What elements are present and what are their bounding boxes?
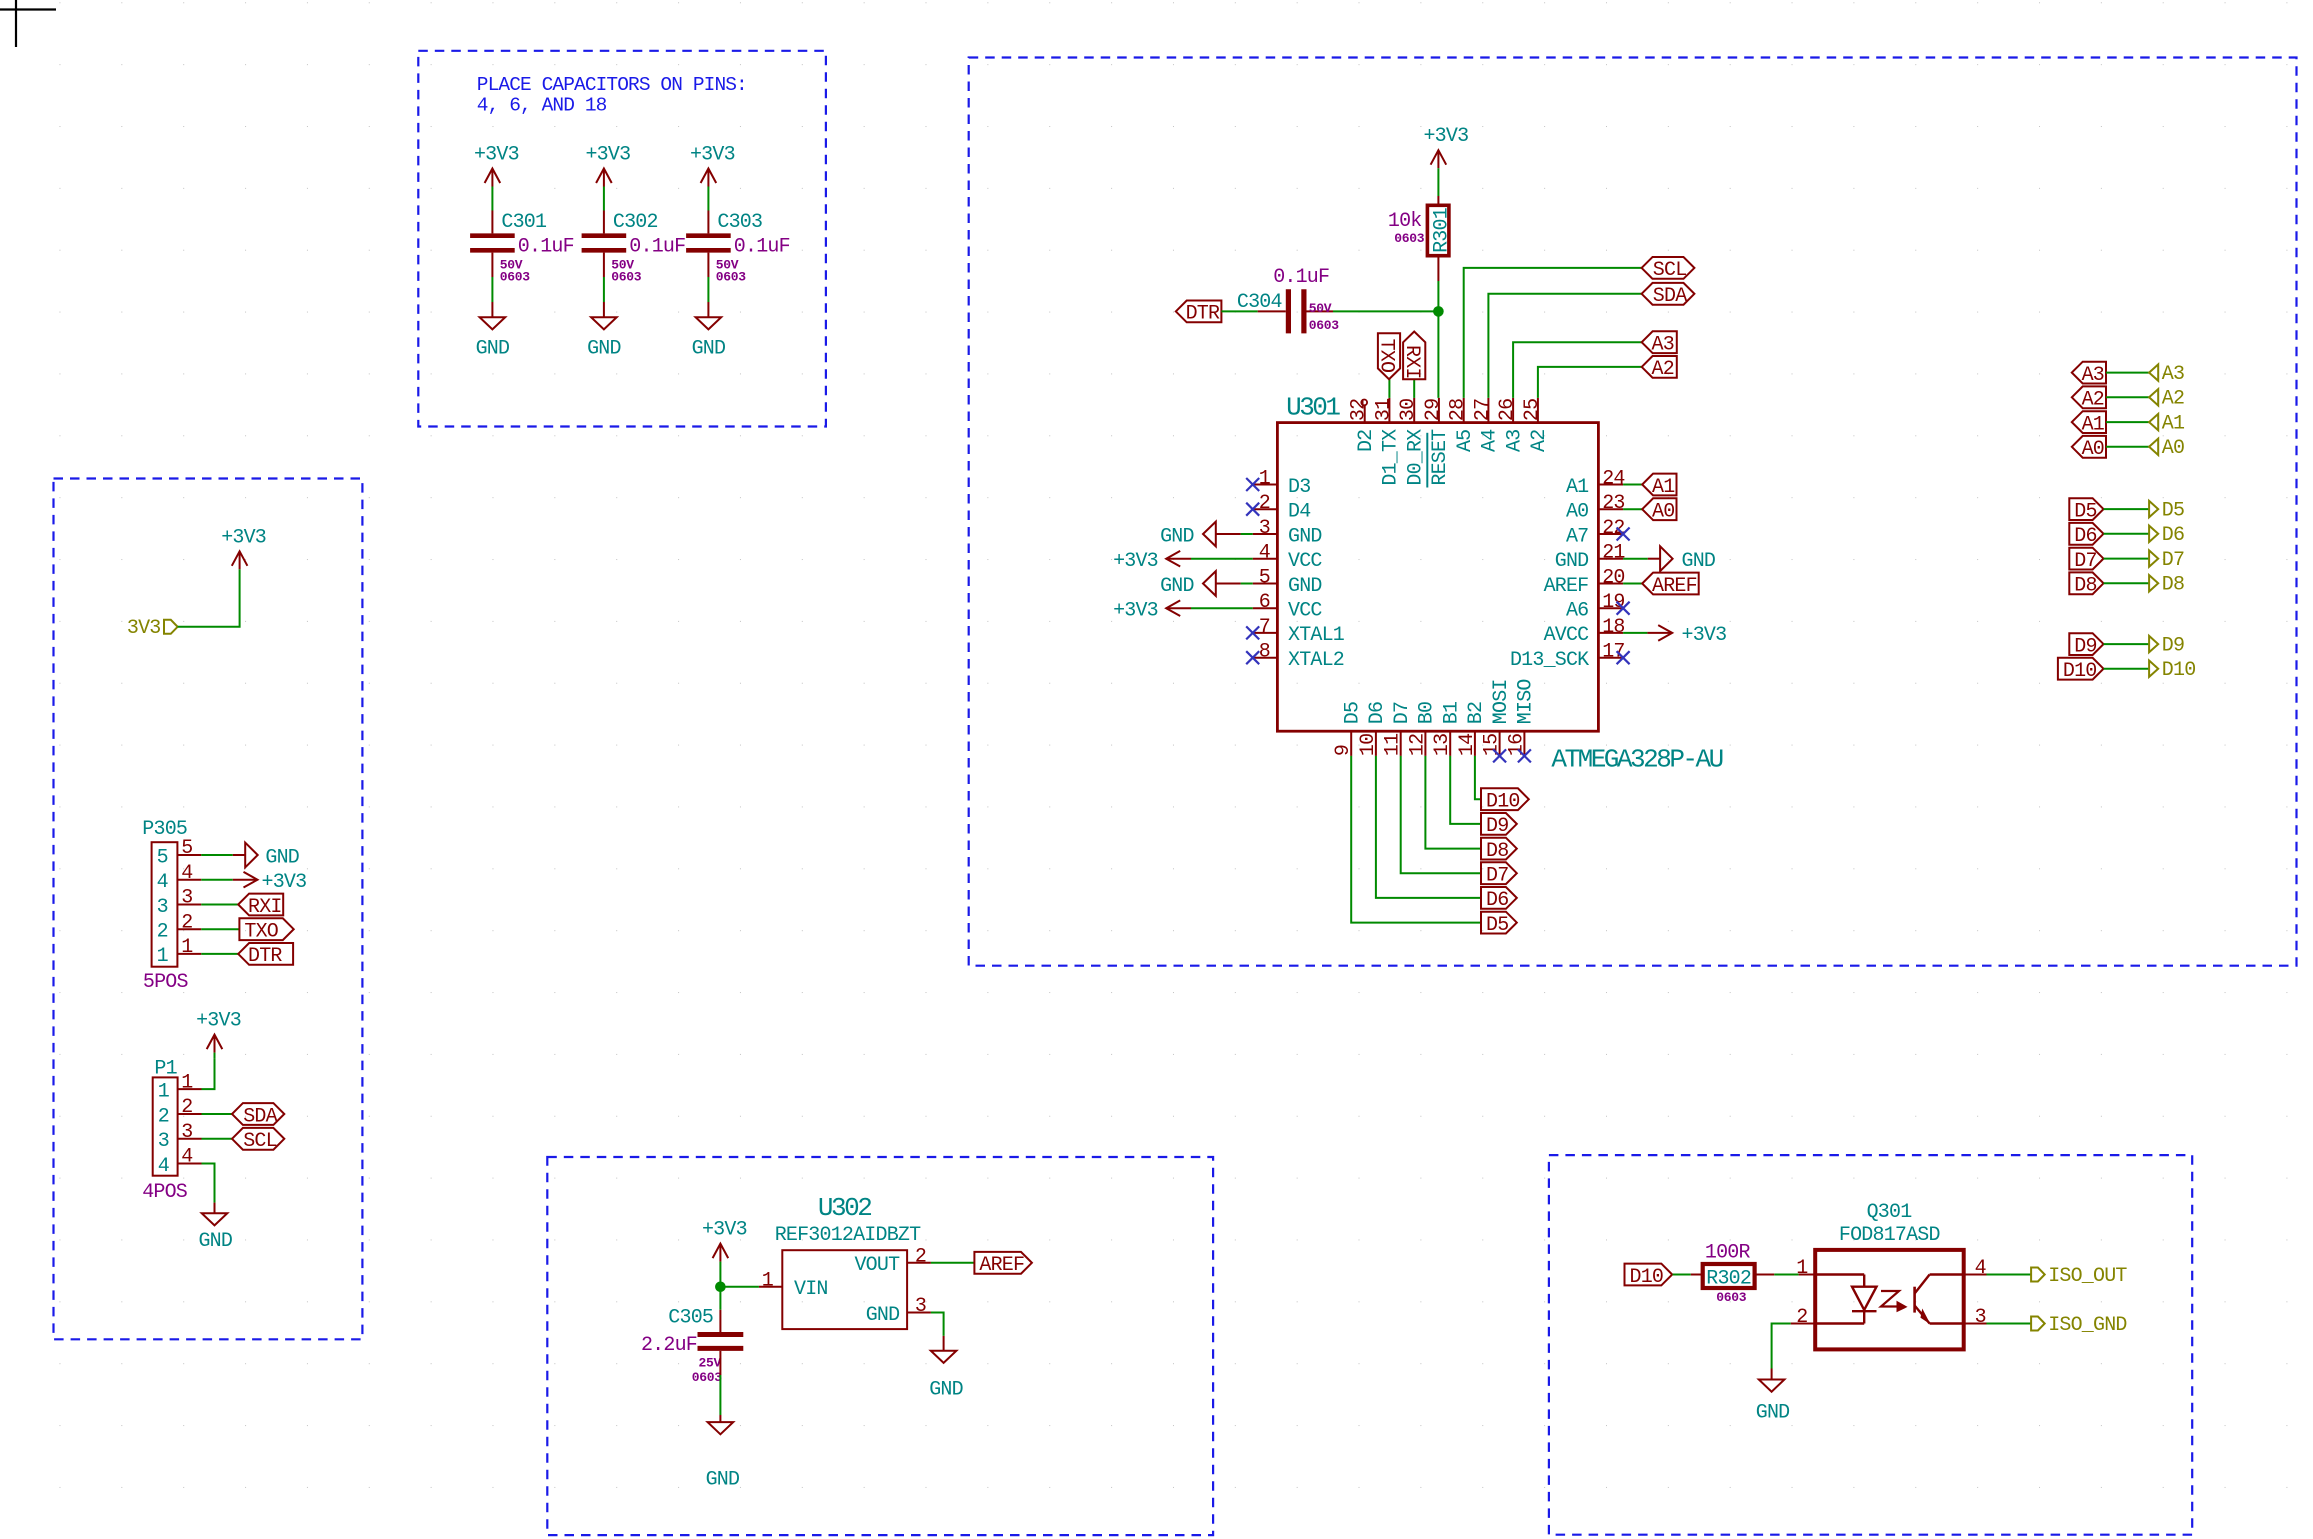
wire DTR to C304 — [1221, 310, 1257, 312]
MCU U301 body — [1277, 423, 1598, 732]
svg-text:AVCC: AVCC — [1544, 624, 1590, 647]
Q301 pin 1 — [1799, 1274, 1816, 1276]
svg-text:ISO_GND: ISO_GND — [2048, 1314, 2126, 1337]
svg-text:5POS: 5POS — [143, 971, 189, 994]
svg-text:13: 13 — [1431, 734, 1454, 756]
svg-text:D2: D2 — [1355, 430, 1378, 452]
wire — [707, 187, 709, 211]
svg-text:RXI: RXI — [1400, 345, 1423, 379]
svg-text:TXO: TXO — [244, 921, 278, 944]
svg-text:D7: D7 — [2074, 550, 2096, 573]
wire pin26 to A3 — [1513, 342, 1642, 398]
global label RXI (U301) vertical — [1403, 332, 1425, 380]
power +3V3 for C301 — [491, 169, 493, 187]
svg-text:DTR: DTR — [248, 945, 282, 968]
sheet corner mark — [0, 8, 56, 10]
power GND below P1 — [214, 1203, 216, 1214]
svg-text:VCC: VCC — [1288, 550, 1322, 573]
svg-text:A2: A2 — [2162, 388, 2184, 411]
no-connect pin16 — [1518, 749, 1531, 762]
wire R302 to opto pin1 — [1755, 1274, 1775, 1276]
svg-text:100R: 100R — [1705, 1242, 1751, 1265]
svg-text:21: 21 — [1602, 542, 1625, 565]
wire — [2106, 446, 2149, 448]
svg-text:3: 3 — [158, 1130, 169, 1153]
svg-text:24: 24 — [1602, 468, 1624, 491]
power GND below C305 — [719, 1415, 721, 1422]
svg-text:D6: D6 — [1366, 702, 1389, 724]
wire P305 pin2 to TXO — [201, 928, 239, 930]
U301 pin 28 A5 — [1463, 398, 1465, 423]
U301 pin 24 A1 — [1598, 484, 1623, 486]
hierarchical label A3 — [2149, 364, 2158, 380]
global label D7 (U301) — [1481, 862, 1517, 884]
svg-text:D3: D3 — [1288, 476, 1310, 499]
global label D9 (right column) — [2069, 633, 2103, 655]
power +3V3 for C303 — [707, 169, 709, 187]
global label DTR (P305) — [238, 943, 293, 965]
wire — [2106, 421, 2149, 423]
wire — [2104, 582, 2150, 584]
hierarchical label A1 — [2149, 414, 2158, 430]
Q301 internal LED — [1815, 1273, 1864, 1275]
svg-text:D6: D6 — [1486, 889, 1508, 912]
power GND left of pin5 — [1216, 583, 1241, 585]
svg-text:3: 3 — [181, 887, 192, 910]
U301 pin 13 B1 — [1449, 731, 1451, 756]
hierarchical label D7 — [2149, 550, 2158, 566]
Q301 pin 2 — [1791, 1323, 1816, 1325]
svg-text:VIN: VIN — [794, 1278, 828, 1301]
power GND right of P305 pin5 — [233, 854, 245, 856]
svg-text:29: 29 — [1422, 399, 1445, 421]
wire TXO to pin31 — [1388, 379, 1390, 398]
global label TXO — [239, 918, 293, 940]
global label TXO (U301) vertical — [1378, 333, 1400, 379]
U301 pin 30 D0_RX — [1413, 398, 1415, 423]
svg-text:D6: D6 — [2074, 525, 2096, 548]
svg-text:GND: GND — [1756, 1402, 1790, 1425]
svg-text:0603: 0603 — [611, 270, 642, 285]
U302 pin 3 GND — [907, 1312, 931, 1314]
svg-text:9: 9 — [1332, 745, 1355, 756]
svg-text:5: 5 — [157, 846, 168, 869]
U301 pin 10 D6 — [1375, 731, 1377, 756]
wire P1 pin1 to +3V3 — [202, 1059, 215, 1089]
svg-text:31: 31 — [1372, 398, 1395, 421]
svg-text:C301: C301 — [501, 211, 547, 234]
dashed box - optocoupler section — [1549, 1155, 2192, 1535]
U301 pin 7 XTAL1 — [1253, 632, 1278, 634]
svg-text:D7: D7 — [2162, 549, 2184, 572]
svg-text:18: 18 — [1602, 616, 1624, 639]
dashed box - bypass capacitors section — [418, 51, 826, 427]
power +3V3 above R301 — [1437, 150, 1439, 168]
no-connect pin19 — [1617, 602, 1630, 615]
wire pin4 to ISO_OUT — [1987, 1274, 2032, 1276]
svg-text:23: 23 — [1602, 492, 1624, 515]
wire +3V3 to VIN — [720, 1286, 759, 1288]
wire GND pin to ground — [931, 1313, 944, 1336]
global label SDA (P1) — [232, 1103, 284, 1125]
power +3V3 right of P305 pin4 — [233, 879, 258, 881]
global label D5 (U301) — [1481, 912, 1517, 934]
svg-text:A0: A0 — [2082, 438, 2104, 461]
svg-text:+3V3: +3V3 — [1423, 125, 1468, 148]
U301 pin 4 VCC — [1253, 558, 1278, 560]
svg-text:XTAL1: XTAL1 — [1288, 624, 1345, 647]
svg-text:A7: A7 — [1566, 525, 1588, 548]
svg-text:10: 10 — [1357, 734, 1380, 756]
wire P305 pin5 to GND — [201, 854, 233, 856]
RESET overline — [1426, 433, 1428, 488]
wire — [603, 277, 605, 302]
svg-text:2: 2 — [1259, 492, 1270, 515]
wire — [603, 187, 605, 211]
svg-text:GND: GND — [929, 1379, 963, 1402]
global label SCL (U301) — [1642, 257, 1695, 279]
wire pin2 to ground — [1772, 1324, 1791, 1369]
U301 pin 16 MISO — [1523, 731, 1525, 756]
svg-text:D13_SCK: D13_SCK — [1510, 649, 1589, 672]
svg-text:10k: 10k — [1388, 210, 1422, 233]
hierarchical label ISO_GND — [2031, 1317, 2045, 1331]
wire — [2104, 668, 2150, 670]
wire pin3 to GND — [1241, 533, 1253, 535]
ground below C302 — [603, 302, 605, 317]
U301 pin 20 AREF — [1598, 583, 1623, 585]
svg-text:25V: 25V — [699, 1355, 722, 1370]
capacitor C304 — [1258, 310, 1286, 312]
power +3V3 above 3V3 entry — [239, 551, 241, 569]
svg-text:B1: B1 — [1440, 701, 1463, 724]
svg-text:0603: 0603 — [692, 1370, 723, 1385]
global label DTR (C304) — [1176, 301, 1222, 323]
dashed box - voltage reference section — [547, 1157, 1213, 1535]
svg-text:0.1uF: 0.1uF — [629, 236, 685, 259]
wire pin27 to SDA — [1488, 294, 1641, 398]
svg-text:A1: A1 — [1652, 476, 1675, 499]
svg-text:1: 1 — [157, 945, 169, 968]
wire VOUT to AREF — [931, 1262, 975, 1264]
U301 pin 19 A6 — [1598, 607, 1623, 609]
svg-text:D5: D5 — [2162, 500, 2184, 523]
svg-text:4: 4 — [1975, 1257, 1986, 1280]
svg-text:2.2uF: 2.2uF — [641, 1334, 697, 1357]
svg-text:PLACE CAPACITORS ON PINS:: PLACE CAPACITORS ON PINS: — [477, 74, 747, 96]
wire 3V3 to +3V3 — [178, 578, 240, 627]
global label D8 (right column) — [2069, 572, 2103, 594]
U301 pin 29 RESET — [1438, 398, 1440, 423]
P1 pin 2 — [178, 1113, 202, 1115]
power GND left of pin3 — [1216, 533, 1241, 535]
svg-text:B2: B2 — [1465, 702, 1488, 724]
U301 pin 2 D4 — [1253, 508, 1278, 510]
svg-text:VOUT: VOUT — [854, 1254, 900, 1277]
svg-text:U302: U302 — [818, 1193, 871, 1223]
svg-text:3: 3 — [1259, 517, 1270, 540]
svg-text:8: 8 — [1259, 641, 1270, 664]
svg-text:B0: B0 — [1416, 702, 1439, 724]
wire pin9 to D5 — [1351, 756, 1481, 923]
svg-text:D5: D5 — [1341, 702, 1364, 724]
svg-text:A2: A2 — [1528, 430, 1551, 452]
P305 pin 2 — [177, 928, 201, 930]
svg-text:GND: GND — [198, 1230, 232, 1253]
svg-text:30: 30 — [1397, 399, 1420, 421]
wire P305 pin1 to DTR — [201, 953, 238, 955]
wire pin4 to +3V3 — [1191, 558, 1253, 560]
svg-text:2: 2 — [915, 1245, 926, 1268]
global label A2 (U301) — [1642, 356, 1677, 378]
U301 pin 1 D3 — [1253, 484, 1278, 486]
Q301 internal phototransistor — [1913, 1287, 1916, 1313]
global label RXI — [238, 894, 283, 916]
U302 pin 2 VOUT — [907, 1262, 931, 1264]
svg-text:4, 6, AND 18: 4, 6, AND 18 — [477, 95, 607, 117]
U301 pin 22 A7 — [1598, 533, 1623, 535]
no-connect pin15 — [1493, 749, 1506, 762]
global label D8 (U301) — [1481, 838, 1517, 860]
svg-text:REF3012AIDBZT: REF3012AIDBZT — [775, 1224, 921, 1247]
global label A3 (U301) — [1642, 331, 1677, 353]
svg-text:4POS: 4POS — [142, 1181, 188, 1204]
svg-text:AREF: AREF — [1544, 575, 1589, 598]
svg-text:5: 5 — [181, 837, 192, 860]
unconnected pin 32 circle — [1364, 405, 1366, 422]
svg-text:15: 15 — [1481, 734, 1504, 756]
svg-text:SCL: SCL — [1653, 259, 1687, 282]
svg-text:GND: GND — [1288, 525, 1322, 548]
svg-text:27: 27 — [1471, 399, 1494, 421]
svg-text:A1: A1 — [2082, 413, 2105, 436]
wire P1 pin4 to GND — [202, 1164, 215, 1203]
power +3V3 above U302 — [719, 1244, 721, 1262]
svg-text:A0: A0 — [2162, 437, 2184, 460]
svg-text:+3V3: +3V3 — [690, 144, 735, 167]
svg-text:A2: A2 — [1652, 358, 1674, 381]
svg-text:D10: D10 — [1486, 791, 1520, 814]
power +3V3 left of pin4 — [1166, 558, 1191, 560]
global label A0 — [1642, 498, 1676, 520]
P305 pin 5 — [177, 854, 201, 856]
dashed box - connectors section — [54, 479, 363, 1340]
wire pin20 to AREF — [1623, 583, 1642, 585]
dashed box - MCU section — [969, 58, 2297, 966]
svg-text:A2: A2 — [2082, 389, 2104, 412]
wire pin24 to A1 — [1623, 484, 1642, 486]
wire P305 pin4 to +3V3 — [201, 879, 233, 881]
svg-text:RXI: RXI — [248, 896, 282, 919]
Q301 pin 3 — [1964, 1323, 1987, 1325]
svg-text:U301: U301 — [1286, 393, 1340, 423]
svg-text:1: 1 — [181, 1071, 193, 1094]
svg-text:C304: C304 — [1237, 291, 1282, 314]
global label D10 (U301) — [1481, 788, 1529, 810]
svg-text:GND: GND — [265, 847, 299, 870]
svg-text:RESET: RESET — [1429, 429, 1452, 486]
wire — [2104, 643, 2150, 645]
svg-text:SDA: SDA — [243, 1105, 277, 1128]
U301 pin 8 XTAL2 — [1253, 657, 1278, 659]
svg-text:0.1uF: 0.1uF — [518, 236, 574, 259]
svg-text:12: 12 — [1406, 734, 1429, 756]
svg-text:26: 26 — [1496, 399, 1519, 421]
svg-text:50V: 50V — [1309, 301, 1332, 316]
svg-text:D0_RX: D0_RX — [1404, 429, 1427, 486]
svg-text:2: 2 — [157, 921, 168, 944]
capacitor C305 — [719, 1287, 721, 1310]
capacitor C302 — [582, 233, 627, 238]
U301 pin 17 D13_SCK — [1598, 657, 1623, 659]
svg-text:FOD817ASD: FOD817ASD — [1839, 1224, 1940, 1247]
wire P1 pin3 to SCL — [202, 1138, 233, 1140]
svg-text:D8: D8 — [2162, 574, 2184, 597]
wire — [707, 277, 709, 302]
U301 pin 27 A4 — [1487, 398, 1489, 423]
svg-text:3: 3 — [157, 896, 168, 919]
svg-text:D10: D10 — [1630, 1266, 1664, 1289]
no-connect pin22 — [1617, 528, 1630, 541]
wire C304 to junction — [1333, 310, 1438, 312]
svg-text:D10: D10 — [2063, 660, 2097, 683]
svg-text:C302: C302 — [613, 211, 658, 234]
svg-text:AREF: AREF — [979, 1254, 1024, 1277]
global label D10 (Q301) — [1625, 1264, 1673, 1286]
wire — [2104, 508, 2150, 510]
P1 pin 3 — [178, 1138, 202, 1140]
svg-text:0603: 0603 — [1309, 318, 1340, 333]
wire pin23 to A0 — [1623, 508, 1642, 510]
svg-text:D9: D9 — [1486, 815, 1508, 838]
wire — [2106, 372, 2149, 374]
wire pin25 to A2 — [1538, 367, 1642, 398]
svg-text:C303: C303 — [717, 211, 762, 234]
U301 pin 6 VCC — [1253, 607, 1278, 609]
svg-text:D10: D10 — [2162, 659, 2196, 682]
svg-text:4: 4 — [1259, 542, 1270, 565]
svg-text:+3V3: +3V3 — [262, 871, 307, 894]
wire P305 pin3 to RXI — [201, 904, 238, 906]
svg-text:D9: D9 — [2162, 635, 2184, 658]
U301 pin 9 D5 — [1350, 731, 1352, 756]
svg-text:SDA: SDA — [1653, 285, 1687, 308]
U301 pin 18 AVCC — [1598, 632, 1623, 634]
P305 pin 3 — [177, 904, 201, 906]
svg-text:+3V3: +3V3 — [1113, 550, 1158, 573]
global label A1 (right column) — [2072, 411, 2106, 433]
svg-text:0603: 0603 — [716, 270, 747, 285]
global label SCL (P1) — [232, 1128, 284, 1150]
power GND right of pin21 — [1648, 558, 1660, 560]
U301 pin 23 A0 — [1598, 508, 1623, 510]
svg-text:MISO: MISO — [1515, 679, 1538, 724]
svg-text:DTR: DTR — [1186, 303, 1220, 326]
svg-text:GND: GND — [692, 337, 726, 360]
wire — [2106, 396, 2149, 398]
capacitor C301 — [470, 233, 515, 238]
U301 pin 21 GND — [1598, 558, 1623, 560]
svg-text:A3: A3 — [1503, 430, 1526, 452]
wire pin18 to +3V3 — [1623, 632, 1647, 634]
svg-text:14: 14 — [1456, 734, 1479, 756]
P1 pin 1 — [178, 1088, 202, 1090]
svg-text:D7: D7 — [1391, 702, 1414, 724]
global label D7 (right column) — [2069, 548, 2103, 570]
wire P1 pin2 to SDA — [202, 1113, 233, 1115]
svg-text:1: 1 — [1796, 1257, 1808, 1280]
wire pin6 to +3V3 — [1191, 607, 1253, 609]
svg-text:3V3: 3V3 — [127, 617, 161, 640]
svg-text:3: 3 — [181, 1121, 192, 1144]
global label D6 (right column) — [2069, 523, 2103, 545]
svg-text:1: 1 — [181, 936, 193, 959]
svg-text:+3V3: +3V3 — [221, 526, 266, 549]
svg-text:2: 2 — [181, 911, 192, 934]
svg-text:SCL: SCL — [243, 1130, 277, 1153]
svg-text:0603: 0603 — [500, 270, 531, 285]
svg-text:A6: A6 — [1566, 600, 1588, 623]
svg-text:C305: C305 — [668, 1307, 713, 1330]
wire pin3 to ISO_GND — [1987, 1323, 2032, 1325]
wire pin14 to D10 — [1475, 756, 1481, 799]
svg-text:11: 11 — [1382, 733, 1405, 756]
svg-text:4: 4 — [157, 871, 168, 894]
U301 pin 15 MOSI — [1499, 731, 1501, 756]
svg-text:4: 4 — [158, 1155, 169, 1178]
wire pin5 to GND — [1241, 583, 1253, 585]
svg-text:20: 20 — [1602, 567, 1624, 590]
hierarchical label ISO_OUT — [2031, 1268, 2045, 1282]
no-connect pin1 — [1246, 478, 1259, 491]
power +3V3 right of pin18 — [1647, 632, 1672, 634]
wire — [2104, 558, 2150, 560]
hierarchical label 3V3 — [164, 620, 178, 634]
wire pin10 to D6 — [1376, 756, 1481, 898]
U302 pin 1 VIN — [759, 1286, 782, 1288]
svg-text:A1: A1 — [1566, 476, 1589, 499]
svg-text:4: 4 — [181, 862, 192, 885]
P305 pin 4 — [177, 879, 201, 881]
global label A0 (right column) — [2072, 436, 2106, 458]
svg-text:D8: D8 — [2074, 575, 2096, 598]
resistor R301 — [1427, 205, 1449, 255]
wire C305 to ground — [719, 1375, 721, 1415]
Q301 pin 4 — [1964, 1274, 1987, 1276]
svg-text:A0: A0 — [1652, 501, 1674, 524]
no-connect pin2 — [1246, 503, 1259, 516]
svg-text:A1: A1 — [2162, 413, 2185, 436]
global label D10 (right column) — [2058, 658, 2104, 680]
wire pin28 to SCL — [1464, 268, 1642, 398]
svg-text:+3V3: +3V3 — [1682, 624, 1727, 647]
svg-text:2: 2 — [181, 1096, 192, 1119]
U301 pin 11 D7 — [1400, 731, 1402, 756]
svg-text:A0: A0 — [1566, 501, 1588, 524]
Q301 light arrows — [1881, 1291, 1899, 1307]
P305 pin 1 — [177, 953, 201, 955]
hierarchical label D10 — [2149, 661, 2158, 677]
resistor R302 — [1703, 1264, 1755, 1288]
svg-text:5: 5 — [1259, 567, 1270, 590]
global label A1 — [1642, 474, 1676, 496]
wire pin12 to D8 — [1425, 756, 1481, 849]
svg-text:+3V3: +3V3 — [196, 1010, 241, 1033]
U301 pin 3 GND — [1253, 533, 1278, 535]
svg-text:0603: 0603 — [1394, 231, 1425, 246]
svg-text:+3V3: +3V3 — [585, 144, 630, 167]
hierarchical label D9 — [2149, 636, 2158, 652]
